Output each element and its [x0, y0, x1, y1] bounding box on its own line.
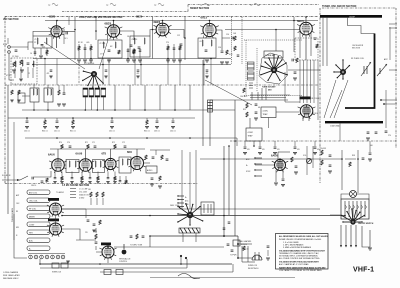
- ground band x138: [136, 76, 139, 78]
- wire converter B+ up: [293, 17, 295, 52]
- wire AGC drop 3: [274, 141, 276, 146]
- wire V6 plate up: [305, 17, 307, 22]
- capacitor C96: [329, 165, 332, 166]
- wire tuner diagonal 2: [334, 80, 348, 118]
- svg-text:R61 .01: R61 .01: [70, 131, 76, 133]
- tube name band V13a: [48, 198, 59, 201]
- wire Z1 left: [28, 42, 33, 50]
- wire drop: [44, 118, 46, 120]
- tube socket V5 converter (bottom view): [260, 54, 288, 81]
- wire drop: [172, 118, 174, 120]
- svg-text:C70: C70: [67, 142, 70, 144]
- wire V12 cathode down: [275, 170, 277, 182]
- wire band drop x141: [140, 59, 142, 86]
- wire antenna stubs: [381, 100, 397, 104]
- wire interstage vert x185: [184, 17, 186, 60]
- ground input: [12, 70, 16, 72]
- resistor R116: [99, 220, 101, 225]
- wire bias drop 3 s2: [139, 48, 141, 59]
- svg-text:VOLTAGES MEASURED WITH VTVM FR: VOLTAGES MEASURED WITH VTVM FROM SOCKET: [279, 249, 326, 252]
- ground left mid 1: [57, 104, 61, 106]
- wire cluster v1: [241, 246, 243, 262]
- ground socket: [66, 261, 70, 263]
- svg-text:R70: R70: [59, 142, 62, 144]
- ground R60: [43, 127, 47, 129]
- capacitor C23: [255, 104, 258, 105]
- wire interstage vert x152: [152, 17, 154, 59]
- resistor R34: [18, 90, 20, 95]
- ground C21: [293, 78, 297, 80]
- capacitor C11: [139, 50, 142, 51]
- wire bus y272: [100, 271, 233, 273]
- wire center vertical 1: [209, 100, 211, 146]
- wire bus y264: [40, 263, 232, 265]
- capacitor C71: [94, 146, 97, 147]
- transformer T1 left: [30, 88, 39, 102]
- capacitor C52: [63, 93, 66, 94]
- wire tuner switch lead 4: [355, 225, 357, 246]
- svg-text:1 C 1.5 MF: 1 C 1.5 MF: [79, 189, 87, 191]
- svg-text:C62 .01: C62 .01: [109, 131, 115, 133]
- capacitor C72: [124, 146, 127, 147]
- ground C121: [266, 258, 270, 260]
- arrowhead lead 3: [350, 245, 352, 247]
- capacitor C105: [223, 228, 226, 229]
- tube V10 ratio detector: [102, 158, 118, 171]
- wire IF plate bus: [50, 148, 145, 150]
- svg-text:TUBE SOCKET: TUBE SOCKET: [262, 87, 276, 89]
- capacitor C90: [282, 179, 285, 180]
- coil T2 primary: [47, 89, 48, 95]
- svg-text:C63 .01: C63 .01: [154, 131, 160, 133]
- resistor R113: [90, 192, 92, 197]
- wire bias drop 2 s1: [84, 44, 86, 59]
- coupling box Z2: [98, 40, 122, 58]
- svg-text:R60 .01: R60 .01: [42, 131, 48, 133]
- svg-text:TUNER LEADS: TUNER LEADS: [11, 207, 14, 222]
- ground C40: [243, 153, 247, 155]
- ground row2-1: [53, 182, 56, 184]
- svg-text:6BZ6: 6BZ6: [136, 16, 143, 19]
- waveform squiggle x154: [158, 3, 164, 6]
- black shield bar top: [320, 15, 382, 18]
- wire V4 to tuner long: [225, 29, 276, 31]
- svg-text:2 B+ 140V: 2 B+ 140V: [79, 192, 88, 194]
- wire lamp right: [357, 194, 370, 199]
- wire drop: [72, 118, 74, 120]
- svg-text:IF IN: IF IN: [3, 44, 8, 46]
- junction dots field: [26, 16, 359, 265]
- fuse holder F1: [104, 270, 111, 275]
- ground C88: [150, 184, 154, 186]
- antenna matching unit box: [11, 58, 37, 84]
- tube V2 2nd video IF amp: [105, 25, 123, 39]
- wire trap to mixer: [276, 111, 299, 113]
- wire row2 plate risers: [58, 149, 137, 159]
- svg-text:6BC5: 6BC5: [297, 19, 304, 23]
- svg-text:470: 470: [297, 149, 300, 151]
- svg-text:INTERLOCK: INTERLOCK: [248, 265, 258, 267]
- waveform squiggle x250: [254, 3, 260, 6]
- capacitor C102: [142, 236, 145, 237]
- svg-text:270: 270: [166, 42, 169, 44]
- resistor R87: [159, 176, 161, 181]
- wire row2 drop 6: [97, 172, 99, 178]
- resistor R20: [243, 88, 245, 93]
- ground R61: [71, 127, 75, 129]
- svg-text:NO SIGNAL INPUT, CONTRAST AT M: NO SIGNAL INPUT, CONTRAST AT MINIMUM,: [279, 255, 318, 258]
- tuner switch wafer socket: [341, 208, 365, 224]
- waveform squiggle x48: [52, 3, 58, 6]
- svg-text:MIXER: MIXER: [29, 216, 35, 218]
- svg-text:VOL: VOL: [303, 155, 306, 157]
- wire drop: [111, 118, 113, 120]
- capacitor band x106: [105, 70, 108, 71]
- svg-text:ANT COIL: ANT COIL: [29, 191, 37, 194]
- svg-text:C80 10: C80 10: [31, 185, 36, 187]
- wire input lead: [10, 46, 28, 48]
- power resistor block: [233, 240, 240, 246]
- wire drops from divider: [34, 85, 64, 93]
- tube name band V14: [101, 243, 111, 246]
- wire V6 screen down: [310, 33, 312, 56]
- tube V8 sound IF amp: [49, 159, 67, 173]
- svg-text:TP: TP: [200, 5, 203, 7]
- capacitor C97: [362, 158, 365, 159]
- capacitor C9: [127, 50, 130, 51]
- ground C98: [368, 159, 372, 161]
- wire tuner diagonal 1: [324, 80, 336, 118]
- ground C64: [171, 127, 175, 129]
- capacitor C82: [54, 178, 57, 179]
- shield dash left of converter: [231, 17, 233, 64]
- ground C96: [328, 171, 332, 173]
- section border sweep jog: [187, 5, 189, 12]
- resistor R97: [321, 160, 323, 165]
- coil T2 secondary: [51, 89, 52, 95]
- resistor R15: [179, 46, 181, 50]
- capacitor C1: [15, 50, 18, 51]
- svg-text:TRAP: TRAP: [263, 113, 269, 116]
- resistor R90: [291, 157, 293, 162]
- wire coil can 1 down: [84, 97, 86, 110]
- resistor R83: [61, 177, 63, 181]
- ground row2-5: [88, 182, 91, 184]
- wire IF divider drop 5: [174, 85, 176, 110]
- svg-text:AGC: AGC: [246, 158, 250, 161]
- wire tuner B+ stubs: [389, 24, 397, 28]
- wire band drop x204: [203, 59, 205, 86]
- wire band drop x211: [210, 59, 212, 86]
- svg-text:Z1: Z1: [35, 39, 37, 41]
- ground C24: [254, 118, 258, 120]
- section border sound bottom: [5, 183, 198, 185]
- capacitor C80: [32, 177, 33, 180]
- wire tuner right vert: [385, 90, 387, 128]
- svg-text:AUDIO: AUDIO: [147, 169, 153, 172]
- resistor R5: [78, 46, 80, 50]
- wire V1 cathode down: [56, 37, 58, 48]
- svg-text:B+: B+: [246, 165, 248, 167]
- svg-text:VHF-1: VHF-1: [353, 267, 374, 274]
- svg-text:470: 470: [262, 149, 265, 151]
- arrowhead lead 4: [355, 245, 357, 247]
- wire plug leads: [255, 252, 259, 256]
- wire long bus y110: [22, 109, 235, 111]
- component cluster left edge: [18, 93, 25, 103]
- ground C60: [25, 127, 29, 129]
- svg-text:6BZ6: 6BZ6: [105, 22, 112, 26]
- svg-text:6AU6: 6AU6: [48, 152, 55, 156]
- resistor R19b: [234, 46, 236, 51]
- socket envelope V5: [259, 53, 287, 84]
- coil T1 primary: [33, 89, 34, 95]
- wire Z2 drops: [103, 57, 115, 60]
- wire C121 gnd: [267, 250, 269, 256]
- wire row2 drop 3: [71, 172, 73, 178]
- svg-text:4.5MC: 4.5MC: [248, 132, 254, 134]
- wire V12 plate up: [277, 152, 279, 160]
- wire left edge bigrect: [149, 236, 151, 247]
- deflection yoke socket (bottom view): [177, 203, 203, 226]
- svg-text:TP: TP: [154, 5, 157, 7]
- section border tuner right: [395, 8, 397, 148]
- ground s1-1: [77, 60, 81, 62]
- wire R100 up: [95, 228, 97, 233]
- terminal board TB1: [264, 51, 283, 58]
- capacitor C3: [34, 52, 37, 53]
- switch wafer B+: [27, 246, 50, 250]
- wire V12 top link: [278, 151, 290, 153]
- coil Z1 primary: [37, 38, 38, 44]
- capacitor C81: [41, 181, 44, 182]
- wire bias drop 1 s1: [78, 44, 80, 59]
- capacitor C86: [89, 178, 92, 179]
- trimmer capacitor C31 arrow: [377, 64, 387, 76]
- resistor R85: [81, 177, 83, 181]
- pilot lamp I1: [350, 191, 357, 198]
- svg-text:R71: R71: [85, 142, 88, 144]
- svg-text:4 GND: 4 GND: [79, 198, 85, 200]
- svg-text:CONV: CONV: [29, 224, 35, 226]
- capacitor C21: [294, 72, 297, 73]
- wire tuner harness 4: [310, 60, 312, 103]
- wire lamp left: [341, 194, 350, 199]
- wire stepped to osc lead: [348, 18, 375, 34]
- wire V1 grid to Z1: [33, 31, 51, 36]
- capacitor C33: [367, 132, 370, 133]
- capacitor C7: [108, 50, 111, 51]
- wire band drop x135: [134, 59, 136, 86]
- svg-text:25.3: 25.3: [42, 47, 45, 49]
- svg-text:C14: C14: [226, 34, 229, 36]
- wire coil can 3 down: [96, 97, 98, 110]
- ratio det transformer Z10: [119, 157, 131, 173]
- ground row2-3: [70, 182, 73, 184]
- capacitor C89: [119, 181, 122, 182]
- wire AGC drop 2: [259, 141, 261, 146]
- svg-text:3. MMF = MICROMICROFARADS: 3. MMF = MICROMICROFARADS: [283, 246, 312, 249]
- shield dash converter bottom: [244, 95, 302, 97]
- wire interstage vert x96: [95, 17, 97, 40]
- ground Z1: [39, 56, 43, 58]
- svg-text:RF: RF: [16, 211, 18, 213]
- wire converter bus: [210, 99, 267, 101]
- wire row2 drop 2: [61, 172, 63, 178]
- coil Z3 primary: [134, 38, 135, 44]
- coil Z4 secondary: [211, 40, 212, 46]
- capacitor C11: [138, 47, 141, 48]
- wire takeoff down: [253, 141, 255, 146]
- ground C62: [110, 127, 114, 129]
- sound IF transformer Z9: [93, 160, 105, 173]
- switch wafer RF COIL: [27, 206, 50, 210]
- terminal strip TS2: [254, 157, 262, 176]
- takeoff terminal ticks: [70, 189, 76, 198]
- capacitor C29: [314, 38, 317, 39]
- ground row2-2: [60, 182, 63, 184]
- capacitor C14: [232, 37, 233, 40]
- svg-text:R62 .01: R62 .01: [144, 131, 150, 133]
- wire bias drop 3 s1: [90, 44, 92, 59]
- resistor R22: [246, 103, 248, 108]
- wire tuner harness 6: [317, 60, 319, 120]
- coil L2 ant: [15, 61, 16, 67]
- ground Z4: [205, 60, 209, 62]
- wire V4 out right: [216, 30, 222, 50]
- resistor R13: [167, 46, 169, 50]
- section border sweep right: [188, 4, 319, 6]
- wire AGC drop 5: [314, 141, 316, 146]
- capacitor C87: [166, 159, 169, 160]
- svg-text:470: 470: [247, 149, 250, 151]
- audio takeoff block: [146, 166, 157, 173]
- svg-text:47 TP: 47 TP: [6, 75, 11, 77]
- wire long bus y138: [25, 137, 237, 139]
- coil L3 ant: [33, 61, 34, 67]
- svg-text:AGC: AGC: [185, 200, 189, 203]
- wire bus y118: [8, 117, 195, 119]
- svg-text:TO DEFL YOKE: TO DEFL YOKE: [130, 245, 143, 247]
- section divider IF/converter: [5, 84, 318, 86]
- svg-text:C120 .05: C120 .05: [242, 249, 249, 251]
- capacitor C60: [26, 121, 29, 122]
- wire ant box drops: [15, 67, 33, 78]
- coupling box Z1: [33, 36, 52, 48]
- antenna terminal dots: [380, 99, 382, 101]
- capacitor band x138: [137, 70, 140, 71]
- wire drop: [156, 118, 158, 120]
- wire V6b leads to shield bar: [303, 117, 309, 122]
- capacitor C106: [228, 222, 231, 223]
- capacitor C121: [267, 246, 270, 247]
- svg-text:CONTROL: CONTROL: [119, 261, 127, 263]
- wire V1 plate riser: [56, 21, 58, 26]
- capacitor C61: [56, 121, 59, 122]
- svg-text:68: 68: [258, 107, 260, 109]
- svg-text:COAX LEAD: COAX LEAD: [330, 125, 340, 128]
- ground band x106: [104, 76, 107, 78]
- wire V13b out: [62, 229, 80, 240]
- svg-text:SEE PAGE VHF-2: SEE PAGE VHF-2: [3, 277, 18, 280]
- ground C61: [55, 127, 59, 129]
- wire cluster h1: [242, 261, 255, 263]
- ground C16: [220, 62, 224, 64]
- svg-text:ALL RESISTANCE VALUES IN OHMS,: ALL RESISTANCE VALUES IN OHMS, ALL CAP V…: [279, 235, 329, 238]
- tube V4 video detector: [200, 23, 218, 38]
- wire bus y268: [40, 267, 187, 269]
- ground tuner loop: [368, 248, 372, 250]
- wire bottom rule: [150, 277, 295, 279]
- svg-text:.005: .005: [86, 42, 89, 44]
- svg-text:TP: TP: [250, 5, 253, 7]
- wire V12 g down: [282, 170, 284, 178]
- wire to drum: [330, 214, 341, 216]
- tube name band V13b: [48, 219, 59, 222]
- svg-text:C16: C16: [218, 47, 221, 49]
- ground left mid 2: [62, 104, 66, 106]
- svg-text:OSC COIL: OSC COIL: [29, 200, 38, 202]
- svg-text:470: 470: [47, 73, 50, 75]
- wire socket row top: [28, 253, 65, 255]
- svg-text:470: 470: [277, 149, 280, 151]
- tube V13b osc strip: [47, 223, 64, 237]
- ground R33: [10, 100, 13, 102]
- wire drop x276: [275, 30, 277, 52]
- shielded oscillator lead: [345, 34, 375, 109]
- ground C33: [366, 138, 370, 140]
- svg-text:470: 470: [206, 73, 209, 75]
- capacitor C20: [292, 59, 293, 62]
- wire V14 cathode: [107, 258, 109, 263]
- wire R100 to V14: [96, 246, 102, 252]
- wire tuner harness 2: [303, 60, 305, 103]
- capacitor C16: [221, 51, 224, 52]
- wire bus y236: [150, 235, 238, 237]
- wire drop: [26, 118, 28, 120]
- wire res col drops: [91, 198, 103, 205]
- svg-text:3 AUDIO OUT: 3 AUDIO OUT: [79, 194, 90, 197]
- svg-text:IN MMF UNLESS OTHERWISE MARKED: IN MMF UNLESS OTHERWISE MARKED. K=1000.: [279, 238, 322, 241]
- wire left drop to socket: [14, 214, 27, 258]
- coil Z1 secondary: [46, 38, 47, 44]
- svg-text:TP: TP: [48, 5, 51, 7]
- wire V14 plate out: [114, 246, 150, 248]
- wire left edge bus: [7, 85, 9, 214]
- yoke plug box: [201, 202, 214, 215]
- shield dash line converter left: [78, 62, 80, 85]
- svg-text:RF COIL: RF COIL: [29, 208, 36, 210]
- wire tuner v2: [389, 27, 391, 60]
- switch wafer MIXER: [27, 214, 50, 218]
- tube V6b mixer-oscillator: [298, 105, 316, 119]
- resistor R3a: [20, 60, 22, 65]
- svg-text:C71: C71: [92, 142, 95, 144]
- wire power link: [238, 243, 252, 245]
- coil Z4 primary: [202, 40, 203, 46]
- capacitor C98: [369, 153, 372, 154]
- wire tuner switch lead 2: [345, 225, 347, 246]
- resistor R87: [97, 177, 99, 181]
- ground V12: [274, 183, 278, 185]
- capacitor C101: [130, 236, 133, 237]
- resistor R96: [321, 150, 323, 155]
- svg-text:RUN 1 AND LATER: RUN 1 AND LATER: [3, 274, 20, 277]
- svg-text:ALL OTHER CONTROLS AT NORMAL S: ALL OTHER CONTROLS AT NORMAL SETTING.: [279, 257, 320, 260]
- resistor R11: [133, 50, 135, 54]
- resistor R80: [46, 178, 48, 182]
- resistor R7: [90, 46, 92, 50]
